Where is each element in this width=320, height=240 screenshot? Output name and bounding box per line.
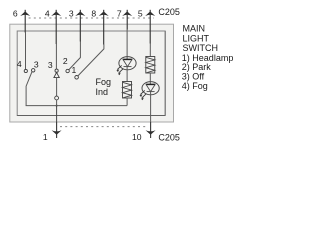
svg-text:1: 1 (43, 132, 48, 142)
svg-text:SWITCH: SWITCH (183, 43, 219, 53)
svg-text:C205: C205 (158, 132, 180, 142)
wire pin3 to contact 2 (79, 18, 81, 42)
pin 10 arrow (146, 130, 156, 135)
wire pin7 to fog indicator LED (126, 18, 128, 30)
svg-text:Fog: Fog (96, 77, 112, 87)
switch inner outline (17, 31, 165, 116)
wire resistor R2 to LED D2 (149, 73, 151, 84)
svg-text:Ind: Ind (96, 87, 109, 97)
connector C205 bottom dashed line (60, 126, 147, 128)
resistor R2 (146, 57, 155, 74)
pin 1 bottom wire (56, 122, 58, 138)
pin 8 arrow (103, 10, 105, 18)
pin 5 arrow (149, 10, 151, 18)
pin 1 arrow (52, 130, 62, 135)
switch B pivot circle (55, 96, 59, 100)
svg-text:3: 3 (48, 60, 53, 70)
svg-text:4: 4 (17, 59, 22, 69)
contact 1 circle (75, 76, 79, 80)
pin 3 arrow (79, 10, 81, 18)
switch B stem to pin 1 (56, 100, 58, 106)
pin 4 arrow (55, 10, 57, 18)
switch B wiper triangle (54, 72, 59, 77)
svg-text:6: 6 (13, 8, 18, 18)
resistor R1 (123, 82, 132, 99)
LED D2 emission arrows (140, 90, 146, 98)
wire LED D2 down to pin 10 (150, 92, 152, 122)
wire pin5 to resistor (149, 18, 151, 44)
contact 4 circle (24, 69, 27, 72)
wire pin4 to switch B contact (55, 18, 57, 44)
wire pin6 into box (24, 18, 26, 33)
switch B wiper stem (56, 78, 58, 97)
svg-text:3: 3 (69, 8, 74, 18)
svg-text:10: 10 (132, 132, 142, 142)
svg-text:C205: C205 (158, 7, 180, 17)
switch B contact circle (55, 69, 58, 72)
switch A lever (26, 72, 32, 106)
svg-text:1: 1 (72, 65, 77, 75)
wire resistor R1 to rail (126, 98, 128, 106)
svg-text:LIGHT: LIGHT (183, 33, 210, 43)
junction switch B / rail (56, 105, 58, 107)
internal rail wire (26, 105, 128, 107)
switch body shaded panel (10, 24, 174, 122)
svg-text:3: 3 (34, 59, 39, 69)
pin 7 arrow (126, 10, 128, 18)
svg-text:MAIN: MAIN (183, 24, 206, 34)
wire pin8 and lever to contact 1 (103, 18, 105, 45)
illumination LED D2 (142, 82, 159, 95)
svg-text:5: 5 (138, 8, 143, 18)
svg-text:4) Fog: 4) Fog (182, 81, 208, 91)
wire LED D1 to resistor R1 (126, 67, 128, 82)
svg-text:7: 7 (117, 8, 122, 18)
connector C205 top dashed line (29, 17, 154, 19)
fog indicator LED D1 (119, 57, 136, 70)
pin 10 bottom wire (150, 122, 152, 138)
svg-text:2: 2 (63, 56, 68, 66)
contact 3 circle (switch A) (32, 69, 35, 72)
contact 2 circle (66, 69, 69, 72)
svg-text:4: 4 (45, 8, 50, 18)
svg-text:8: 8 (91, 8, 96, 18)
LED D1 emission arrows (117, 65, 123, 73)
pin 6 arrow (24, 10, 26, 18)
